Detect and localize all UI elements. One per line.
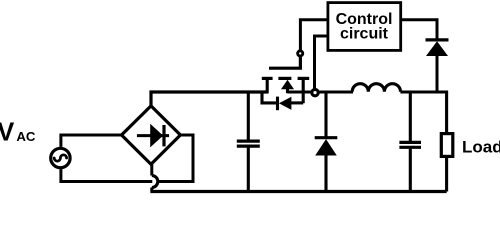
gate terminal circle bbox=[298, 51, 303, 56]
freewheel diode D1 cathode bar bbox=[315, 136, 338, 139]
transistor Q1 source lead bbox=[266, 78, 269, 93]
svg-text:Load: Load bbox=[462, 138, 500, 157]
wire lower horizontal right of hop, up to bridge right vertex bbox=[158, 135, 193, 182]
wire gate circle to gate bar bbox=[299, 57, 302, 68]
switch node terminal circle bbox=[312, 89, 318, 95]
capacitor C1 bottom wire bbox=[247, 148, 250, 192]
wire sense line from control box to switch node bbox=[315, 36, 329, 89]
freewheel diode D1 top wire bbox=[324, 92, 327, 137]
capacitor C2 top wire bbox=[409, 92, 412, 141]
wire control box right to diode D2 bbox=[400, 20, 437, 39]
wire bridge top vertex to top rail bbox=[151, 92, 269, 107]
freewheel diode D1 triangle bbox=[315, 139, 337, 155]
label VAC bbox=[0, 118, 36, 146]
bridge rectifier BR1 diamond bbox=[122, 106, 181, 164]
body diode of Q1 cathode bar bbox=[276, 97, 279, 111]
capacitor C1 plates bbox=[237, 141, 260, 146]
control circuit U1 box bbox=[328, 3, 401, 51]
wire hop (crossover arc) bbox=[152, 176, 158, 188]
bottom rail bbox=[150, 190, 446, 193]
capacitor C2 bottom wire bbox=[409, 149, 412, 192]
wire hop bottom to bottom rail corner bbox=[150, 188, 153, 192]
wire bridge bottom vertex down to hop bbox=[150, 164, 153, 176]
transistor Q1 drain lead bbox=[302, 78, 305, 103]
wire gate drive from control box bbox=[300, 20, 328, 50]
wire switch-node rail (arrow shaft to inductor) bbox=[288, 90, 354, 93]
wire AC source bottom to lower-left horizontal bbox=[61, 169, 152, 181]
svg-text:circuit: circuit bbox=[340, 26, 389, 43]
wire diode D2 anode down to output rail bbox=[436, 55, 439, 92]
bridge diode inside BR1 bbox=[137, 125, 169, 146]
transistor Q1 channel bars bbox=[262, 77, 309, 80]
AC source S1 bbox=[51, 148, 70, 167]
body diode of Q1 left leg bbox=[262, 91, 276, 103]
body diode of Q1 triangle bbox=[279, 97, 292, 110]
svg-text:AC: AC bbox=[16, 129, 36, 144]
transistor Q1 gate bar bbox=[269, 57, 300, 68]
capacitor C1 top wire bbox=[247, 92, 250, 140]
wire inductor to load corner bbox=[400, 92, 446, 133]
wire AC source top to bridge left vertex bbox=[61, 135, 123, 147]
diode D2 triangle bbox=[426, 41, 448, 56]
body diode of Q1 right leg bbox=[291, 101, 304, 104]
control circuit U1 text bbox=[336, 11, 393, 43]
wire load bottom to bottom rail bbox=[445, 158, 448, 192]
svg-text:V: V bbox=[0, 118, 14, 146]
inductor L1 bbox=[352, 84, 400, 92]
diode D2 cathode bar bbox=[426, 38, 449, 41]
load resistor box bbox=[441, 134, 453, 157]
capacitor C2 plates bbox=[399, 142, 421, 147]
freewheel diode D1 bottom wire bbox=[324, 155, 327, 192]
transistor Q1 body arrow bbox=[281, 80, 294, 93]
